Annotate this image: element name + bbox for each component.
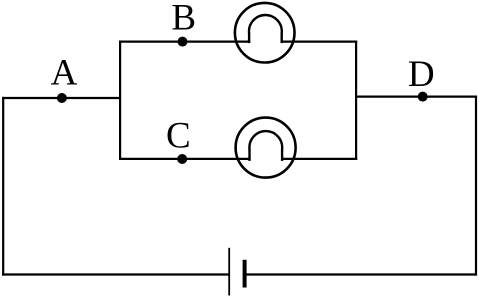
wire: top branch left of lamp [119, 40, 250, 42]
wire: bottom right segment from battery [246, 273, 477, 275]
lamp L2 filament left lead [248, 149, 250, 161]
wire: bottom branch right of lamp [281, 158, 357, 160]
lamp L2 (bottom branch bulb) [236, 118, 296, 178]
battery: long plate (positive) [228, 248, 230, 296]
lamp L2 filament right lead [281, 149, 283, 161]
lamp L1 envelope circle [235, 3, 295, 63]
node B (junction dot) [178, 37, 188, 47]
wire: A horizontal (left edge to parallel box) [2, 97, 120, 99]
lamp L1 (top branch bulb) [235, 3, 295, 63]
wire: outer right vertical [475, 96, 477, 276]
wire: outer left vertical [2, 97, 4, 276]
wire: bottom branch left of lamp [119, 158, 251, 160]
node A (junction dot) [57, 93, 67, 103]
svg-text:C: C [166, 115, 191, 156]
lamp L2 filament arc [249, 131, 282, 149]
wire: top branch right of lamp [281, 40, 358, 42]
node D (junction dot) [418, 92, 428, 102]
svg-text:B: B [171, 0, 196, 38]
node C (junction dot) [177, 154, 187, 164]
wire: parallel box right vertical [355, 41, 357, 161]
lamp L1 filament left lead [248, 33, 250, 43]
lamp L1 filament arc [249, 15, 282, 33]
wire: D horizontal (parallel box to right edge) [356, 95, 477, 97]
svg-text:D: D [408, 54, 435, 95]
wire: parallel box left vertical [119, 41, 121, 161]
wire: bottom left segment to battery [2, 273, 229, 275]
svg-text:A: A [51, 53, 78, 94]
lamp L1 filament right lead [281, 33, 283, 43]
lamp L2 envelope circle [236, 118, 296, 178]
battery: short thick plate (negative) [243, 260, 247, 288]
